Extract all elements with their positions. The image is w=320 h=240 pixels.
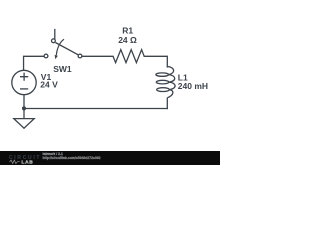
wire V1 bottom to junction: [23, 95, 25, 109]
svg-text:SW1: SW1: [53, 64, 72, 74]
inductor L1: [156, 67, 175, 98]
wire bottom rail: [24, 108, 168, 110]
switch SW1: [44, 39, 82, 58]
svg-text:24 V: 24 V: [40, 80, 58, 90]
switch SW1 arrow head: [55, 55, 58, 59]
watermark bar: [0, 151, 220, 165]
ground: [14, 119, 34, 129]
svg-text:240 mH: 240 mH: [178, 81, 208, 91]
svg-text:http://circuitlab.com/c5349d27: http://circuitlab.com/c5349d272c362: [43, 156, 101, 160]
svg-text:LAB: LAB: [22, 160, 34, 165]
switch SW1 pole terminal: [78, 54, 82, 58]
switch SW1 left throw terminal: [44, 54, 48, 58]
switch SW1 lever: [55, 43, 78, 55]
switch SW1 top throw terminal: [52, 39, 56, 43]
svg-text:24 Ω: 24 Ω: [118, 35, 137, 45]
wire ground stub: [23, 109, 25, 119]
svg-text:R1: R1: [122, 26, 133, 36]
wire resistor R1 to inductor L1 top: [144, 56, 167, 67]
switch SW1 top throw stub: [54, 30, 56, 39]
wire switch pole to resistor R1: [82, 55, 113, 57]
voltage source V1: [12, 70, 36, 94]
switch SW1 actuation arrow: [56, 39, 64, 55]
watermark logo waveform: [10, 160, 20, 163]
wire top-left from V1 to switch left terminal: [24, 56, 44, 70]
resistor R1: [113, 50, 144, 63]
node junction at V1 bottom: [22, 106, 26, 110]
wire inductor L1 bottom to rail: [166, 98, 168, 108]
